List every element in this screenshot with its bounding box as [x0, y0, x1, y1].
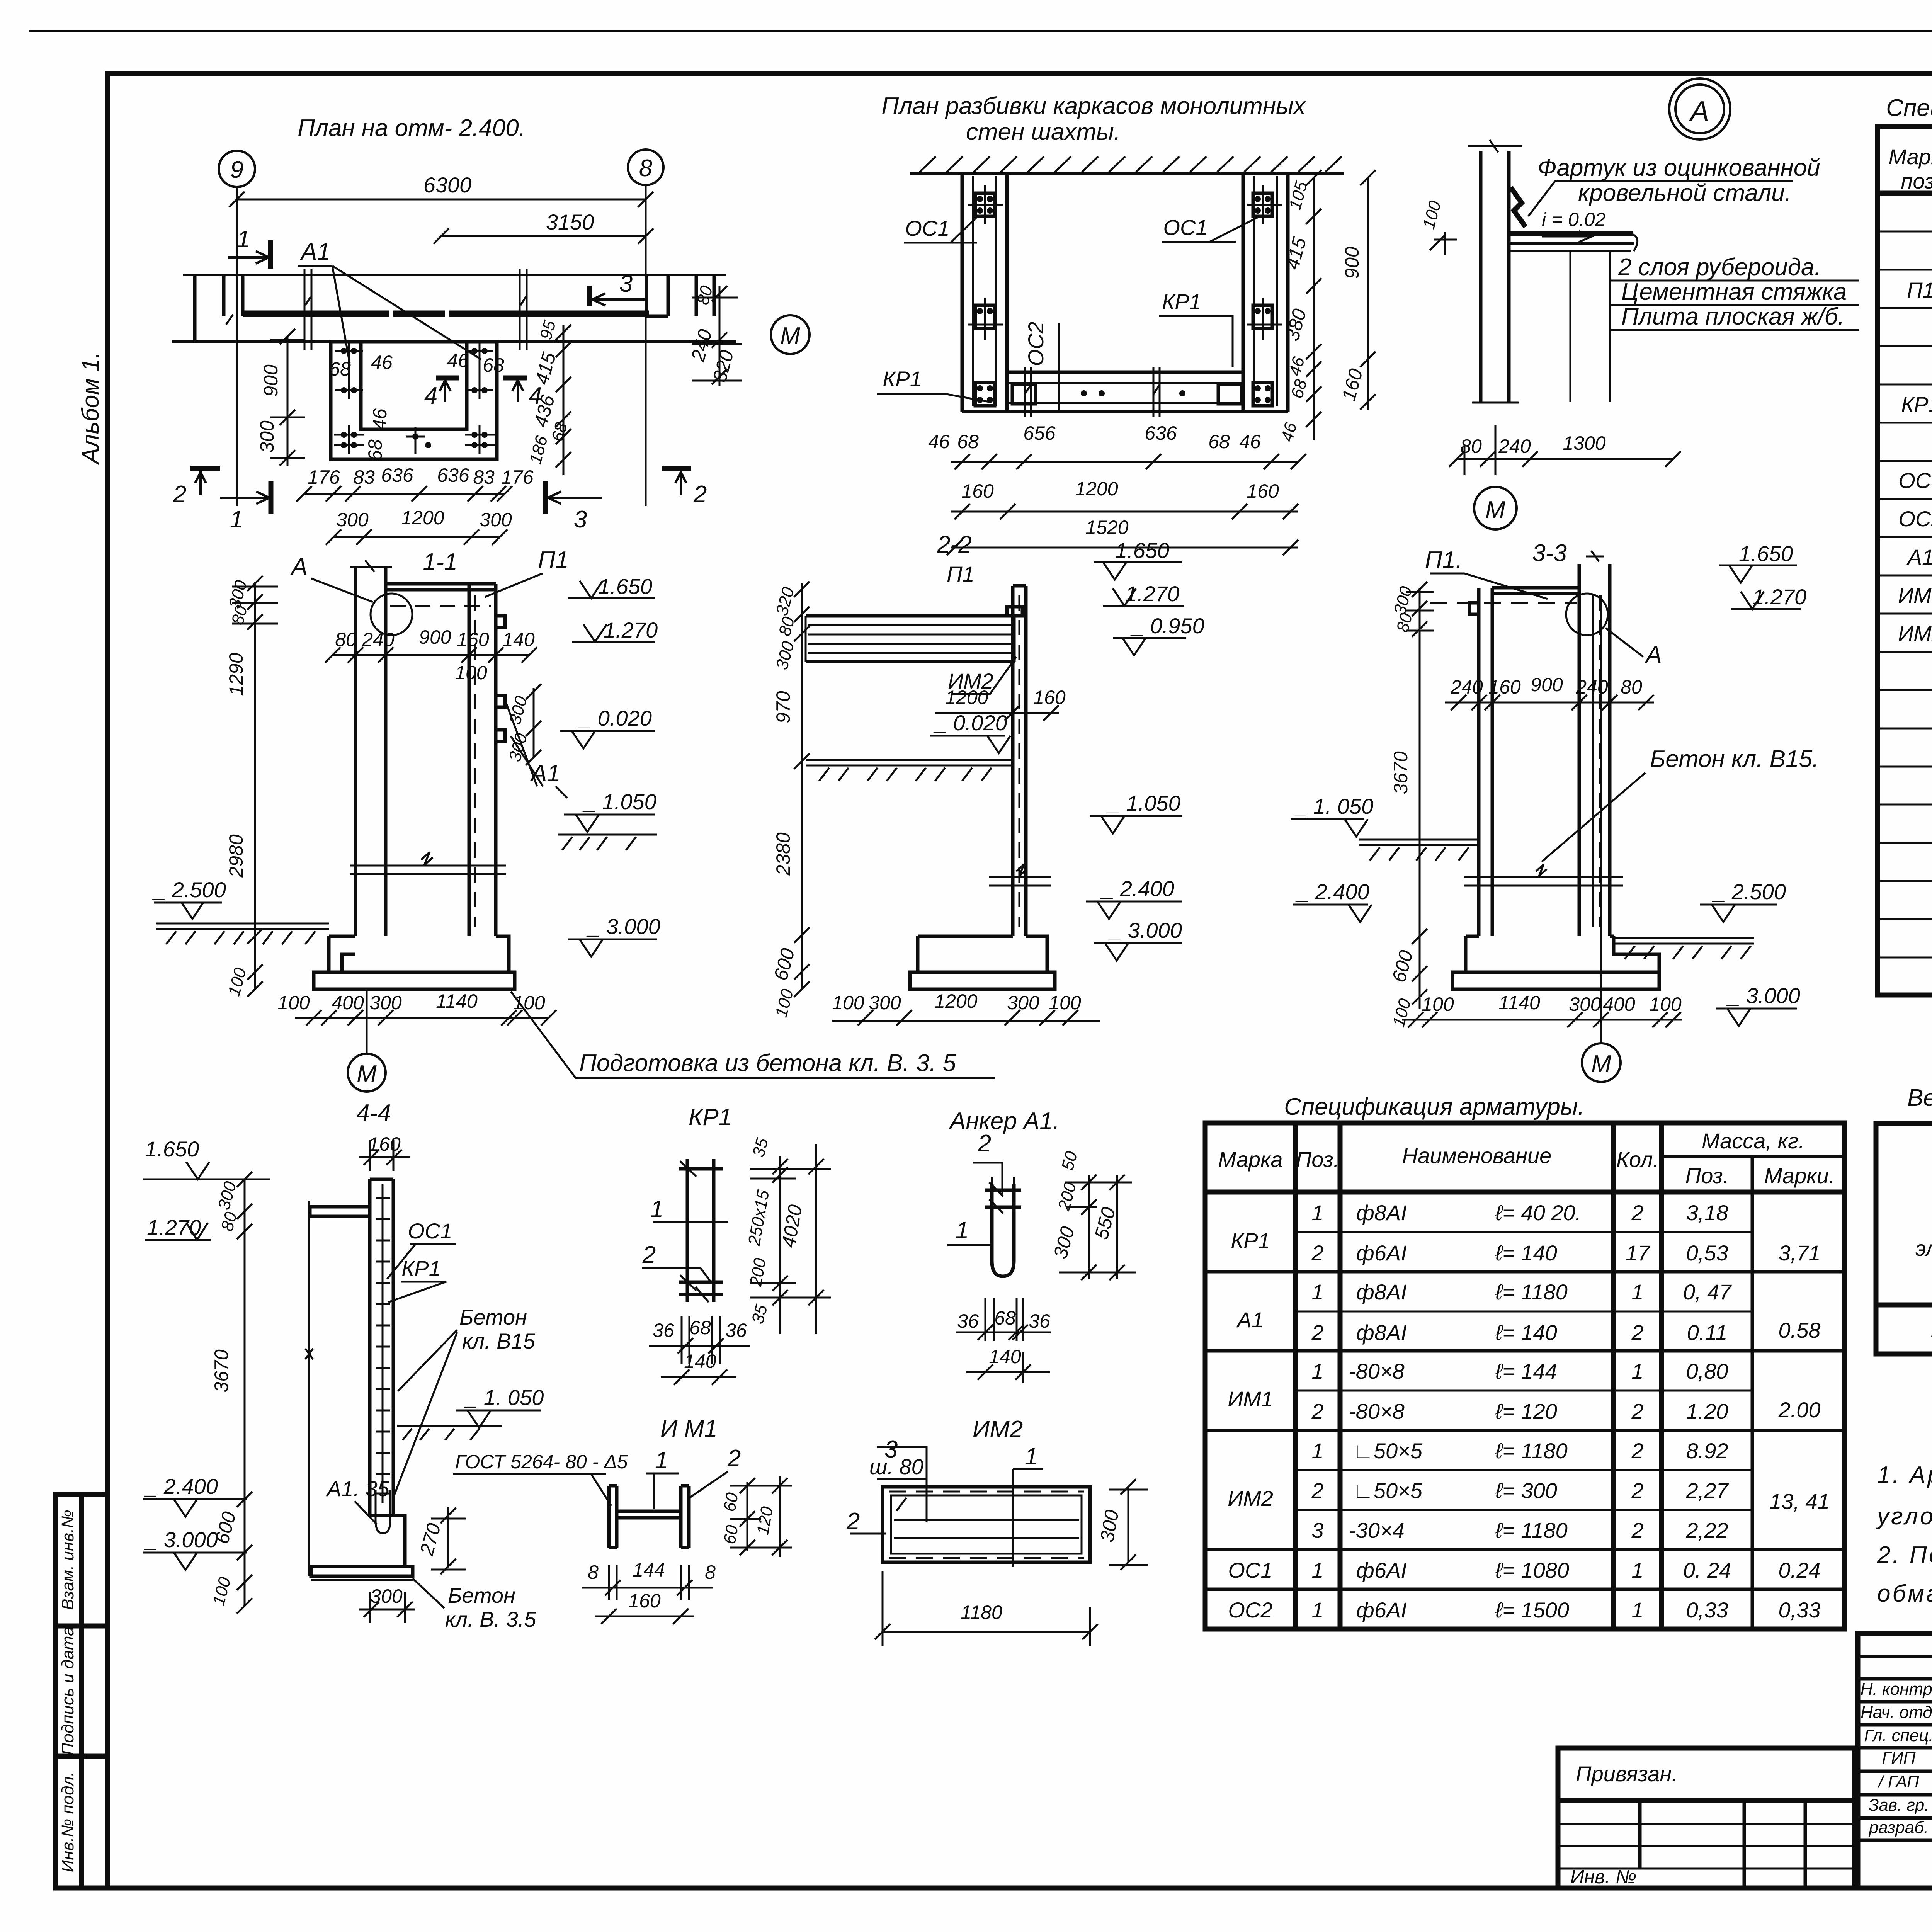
level -2.500 left: [154, 903, 222, 919]
bottom dim row 176/83/636/636/83/176: [304, 493, 505, 495]
svg-text:2 слоя рубероида.: 2 слоя рубероида.: [1618, 254, 1821, 281]
svg-text:кл. В. 3.5: кл. В. 3.5: [445, 1607, 536, 1631]
svg-text:поз.: поз.: [1901, 169, 1932, 193]
level -1.050 left 3-3: [1291, 819, 1368, 837]
ground line right: [558, 835, 657, 850]
svg-text:ℓ= 120: ℓ= 120: [1495, 1399, 1557, 1423]
svg-text:1.20: 1.20: [1686, 1399, 1728, 1423]
svg-text:186: 186: [526, 434, 551, 466]
svg-text:68: 68: [1287, 377, 1311, 400]
svg-text:КР1: КР1: [689, 1104, 732, 1131]
svg-text:1520: 1520: [1085, 517, 1128, 538]
svg-text:160: 160: [368, 1133, 401, 1155]
vedomost frame: [1876, 1123, 1932, 1354]
svg-text:900: 900: [1341, 247, 1363, 279]
svg-text:1: 1: [1631, 1359, 1643, 1383]
svg-text:636: 636: [437, 464, 469, 486]
svg-text:1140: 1140: [436, 990, 478, 1012]
wall band top line: [183, 274, 726, 276]
left dim chain 4-4: [244, 1179, 246, 1606]
row lines full: [1205, 1272, 1845, 1589]
svg-text:_ 3.000: _ 3.000: [144, 1527, 218, 1552]
dims 240 160 900 240 80: [1445, 702, 1654, 704]
svg-text:6300: 6300: [423, 173, 472, 197]
svg-text:Н. контр.: Н. контр.: [1861, 1680, 1932, 1699]
footing 3-3: [1452, 936, 1659, 989]
svg-text:Марка: Марка: [1888, 145, 1932, 169]
svg-text:_ 0.020: _ 0.020: [933, 711, 1007, 735]
svg-text:1: 1: [1311, 1558, 1323, 1582]
svg-text:1: 1: [1311, 1359, 1323, 1383]
verticals: [1296, 1123, 1662, 1629]
svg-text:2: 2: [1311, 1320, 1323, 1345]
svg-text:3: 3: [619, 270, 633, 297]
svg-text:М: М: [1591, 1051, 1611, 1077]
svg-text:900: 900: [419, 626, 451, 648]
extension line: [308, 1201, 310, 1576]
svg-text:36: 36: [725, 1320, 747, 1341]
svg-text:_ 1.050: _ 1.050: [582, 789, 656, 814]
svg-text:Бетон: Бетон: [459, 1305, 527, 1329]
svg-text:415: 415: [531, 350, 560, 387]
svg-text:970: 970: [772, 691, 794, 723]
svg-text:100: 100: [1422, 993, 1454, 1015]
svg-text:68: 68: [364, 439, 386, 461]
svg-text:36: 36: [1029, 1310, 1050, 1332]
svg-text:160: 160: [1338, 366, 1367, 403]
svg-text:ИМ2: ИМ2: [1228, 1486, 1273, 1510]
level 1.650: [568, 581, 655, 598]
privyazan sub table: [1558, 1800, 1854, 1888]
svg-text:Спецификация элементов воз: Спецификация элементов воздухозаборной ш…: [1886, 95, 1932, 121]
svg-text:1.650: 1.650: [145, 1137, 199, 1161]
M circle below detail: [1474, 487, 1517, 529]
level -2.400 left 3-3: [1293, 905, 1372, 922]
svg-text:Альбом 1.: Альбом 1.: [77, 352, 104, 465]
right dim chain 95/415/436/68/186: [563, 325, 565, 475]
bottom dims KP1: [682, 1316, 720, 1364]
dim 3150: [441, 235, 646, 237]
svg-text:Зав. гр.: Зав. гр.: [1868, 1796, 1929, 1815]
ceiling hatched line: [910, 172, 1344, 175]
bottom dims A1: [985, 1298, 1023, 1341]
svg-text:1: 1: [1631, 1598, 1643, 1622]
svg-text:46: 46: [928, 431, 950, 452]
svg-text:Подпись и дата: Подпись и дата: [58, 1627, 77, 1755]
svg-text:А: А: [1644, 641, 1662, 668]
svg-text:2.00: 2.00: [1778, 1398, 1821, 1422]
svg-text:ℓ= 140: ℓ= 140: [1495, 1241, 1557, 1265]
dim 6300: [237, 199, 646, 201]
svg-text:0,33: 0,33: [1779, 1598, 1821, 1622]
svg-text:Спецификация арматуры.: Спецификация арматуры.: [1284, 1094, 1584, 1120]
cross ties: [985, 1190, 1021, 1207]
svg-text:ℓ= 1500: ℓ= 1500: [1495, 1598, 1569, 1622]
svg-text:кровельной стали.: кровельной стали.: [1578, 180, 1791, 206]
svg-text:8: 8: [705, 1561, 716, 1583]
section mark 1 bottom: [269, 481, 274, 514]
left dim chain 2-2: [801, 583, 803, 989]
bottom dims IM1: [609, 1565, 689, 1600]
axis line to M: [366, 989, 368, 1054]
svg-text:Инв.№ подл.: Инв.№ подл.: [58, 1772, 77, 1872]
level -1.050 right: [1090, 816, 1182, 833]
svg-text:636: 636: [381, 464, 413, 486]
far right pier: [696, 275, 714, 316]
svg-text:900: 900: [260, 364, 282, 397]
I-beam: [609, 1486, 689, 1548]
svg-text:240: 240: [362, 629, 395, 650]
svg-text:1: 1: [1631, 1280, 1643, 1304]
svg-text:ОС1: ОС1: [905, 216, 949, 240]
svg-text:ф8АI: ф8АI: [1356, 1201, 1407, 1225]
far right dims 80/240/320: [719, 286, 721, 386]
svg-text:0,80: 0,80: [1686, 1359, 1728, 1383]
left dims 600 100: [1412, 966, 1427, 1005]
svg-text:0,53: 0,53: [1686, 1241, 1728, 1265]
svg-text:Привязан.: Привязан.: [1576, 1762, 1678, 1786]
svg-text:600: 600: [1388, 948, 1417, 985]
svg-text:ВЗ Ш-1: ВЗ Ш-1: [1930, 1317, 1932, 1342]
bottom dim 100 400 300 1140 100: [295, 1017, 549, 1019]
leader verticals below slab: [1570, 251, 1610, 402]
right dim chain KP1: [779, 1156, 781, 1334]
svg-text:3-3: 3-3: [1532, 540, 1567, 566]
svg-text:Кол.: Кол.: [1616, 1147, 1659, 1172]
svg-text:320: 320: [772, 585, 798, 617]
svg-text:-30×4: -30×4: [1349, 1518, 1405, 1543]
level 1.650 right: [1094, 562, 1182, 580]
svg-text:Марка: Марка: [1218, 1147, 1282, 1172]
svg-text:ОС1: ОС1: [1898, 468, 1932, 493]
svg-text:1.270: 1.270: [147, 1215, 201, 1240]
svg-text:ИМ1: ИМ1: [1228, 1387, 1273, 1411]
cage squares left wall: [975, 193, 1272, 406]
svg-text:кл. В15: кл. В15: [462, 1329, 536, 1353]
svg-text:1: 1: [1311, 1598, 1323, 1622]
svg-text:1.270: 1.270: [1752, 585, 1806, 609]
svg-text:Гл. спец.: Гл. спец.: [1864, 1726, 1932, 1745]
ground left 3-3: [1359, 840, 1479, 861]
level -0.950 right: [1113, 638, 1186, 655]
detail circle mark A 3-3: [1566, 594, 1608, 635]
svg-text:_ 1. 050: _ 1. 050: [1293, 794, 1373, 818]
wall break 2-2: [989, 864, 1051, 886]
svg-text:9: 9: [230, 156, 243, 183]
detail circle mark A: [371, 594, 412, 635]
anchor tooth left: [1469, 603, 1479, 614]
svg-text:_ 2.500: _ 2.500: [152, 878, 226, 902]
svg-text:ℓ= 1180: ℓ= 1180: [1495, 1439, 1568, 1463]
svg-text:Поз.: Поз.: [1685, 1163, 1729, 1188]
svg-text:ф8АI: ф8АI: [1356, 1320, 1407, 1345]
svg-text:144: 144: [633, 1559, 665, 1581]
svg-text:300: 300: [369, 992, 402, 1014]
footing 2-2: [910, 936, 1055, 989]
top slab 3-3: [1492, 588, 1579, 594]
svg-text:160: 160: [457, 629, 489, 650]
wall 4-4: [370, 1179, 393, 1515]
bottom dims row3 1520: [951, 547, 1298, 549]
svg-text:415: 415: [1281, 235, 1311, 272]
svg-text:3150: 3150: [546, 210, 594, 234]
svg-text:А: А: [290, 553, 307, 580]
svg-text:1180: 1180: [961, 1602, 1002, 1623]
svg-text:900: 900: [1531, 674, 1563, 696]
right wall 1-1: [469, 584, 496, 936]
svg-text:3,71: 3,71: [1779, 1241, 1821, 1265]
svg-text:550: 550: [1090, 1205, 1120, 1242]
svg-text:2: 2: [846, 1508, 860, 1535]
armatura table frame: [1205, 1123, 1845, 1629]
row lines partial: [1296, 1232, 1752, 1510]
svg-text:1140: 1140: [1498, 992, 1540, 1014]
svg-text:1: 1: [1631, 1558, 1643, 1582]
svg-text:элемента: элемента: [1915, 1236, 1932, 1260]
svg-text:600: 600: [211, 1509, 240, 1546]
svg-text:68: 68: [1208, 431, 1230, 452]
svg-text:636: 636: [1145, 422, 1177, 444]
svg-text:140: 140: [684, 1350, 716, 1372]
svg-text:250x15: 250x15: [745, 1189, 773, 1247]
svg-text:140: 140: [989, 1346, 1021, 1367]
svg-text:ИМ2: ИМ2: [973, 1416, 1023, 1443]
svg-text:Подготовка из бетона кл.: Подготовка из бетона кл. В. 3. 5: [579, 1050, 956, 1077]
frame rect: [883, 1487, 1090, 1562]
svg-text:ℓ= 300: ℓ= 300: [1495, 1478, 1557, 1503]
axis circle 9: [219, 151, 255, 187]
svg-text:_ 2.400: _ 2.400: [1100, 876, 1174, 901]
svg-text:КР1: КР1: [1901, 392, 1932, 417]
axis to M 3-3: [1600, 595, 1602, 1043]
svg-text:ОС2: ОС2: [1228, 1598, 1272, 1622]
bottom wall: [962, 372, 1288, 412]
svg-text:_ 2.500: _ 2.500: [1712, 879, 1786, 904]
svg-text:320: 320: [709, 348, 738, 384]
svg-text:ℓ= 1180: ℓ= 1180: [1495, 1518, 1568, 1543]
svg-text:1: 1: [1311, 1201, 1323, 1225]
svg-text:_ 1. 050: _ 1. 050: [464, 1385, 544, 1410]
svg-text:ф8АI: ф8АI: [1356, 1280, 1407, 1304]
level -3.000: [143, 1553, 247, 1570]
svg-text:1: 1: [230, 506, 243, 533]
svg-text:46: 46: [1239, 431, 1261, 452]
svg-text:300: 300: [869, 992, 901, 1014]
svg-text:160: 160: [1488, 676, 1521, 698]
svg-text:Поз.: Поз.: [1296, 1147, 1340, 1172]
svg-text:КР1: КР1: [1231, 1228, 1270, 1253]
svg-text:1200: 1200: [945, 687, 988, 708]
level -2.400 right: [1086, 901, 1182, 919]
svg-text:ИМ1: ИМ1: [1898, 583, 1932, 607]
svg-text:_ 1.050: _ 1.050: [1106, 791, 1180, 815]
svg-text:36: 36: [957, 1310, 979, 1332]
svg-text:160: 160: [628, 1590, 661, 1612]
sheet outer border top: [29, 30, 1932, 32]
svg-text:1.650: 1.650: [598, 574, 652, 599]
svg-text:300: 300: [1049, 1224, 1079, 1261]
svg-text:Фартук из оцинкованной: Фартук из оцинкованной: [1537, 155, 1820, 181]
axis line 9: [236, 187, 238, 506]
top dims 80 240 900 160 140: [333, 654, 529, 656]
svg-text:100: 100: [832, 992, 864, 1014]
svg-text:2: 2: [642, 1242, 656, 1268]
svg-text:1: 1: [650, 1196, 663, 1223]
svg-text:М: М: [357, 1061, 377, 1087]
svg-text:Нач. отд.: Нач. отд.: [1861, 1703, 1932, 1722]
svg-text:8: 8: [639, 155, 653, 182]
svg-text:4-4: 4-4: [356, 1100, 391, 1126]
svg-text:КР1: КР1: [1162, 289, 1201, 314]
svg-text:95: 95: [536, 318, 560, 342]
right dims IM1: [747, 1482, 748, 1551]
svg-text:46: 46: [447, 350, 469, 371]
svg-text:КР1: КР1: [883, 367, 922, 391]
svg-text:_ 2.400: _ 2.400: [1295, 879, 1369, 904]
svg-text:13, 41: 13, 41: [1769, 1489, 1830, 1514]
dim 100 left: [1430, 232, 1457, 255]
rebar tick lines: [334, 342, 495, 454]
wall band bottom thin line: [172, 340, 736, 343]
wall break mid: [350, 852, 506, 874]
rebar dots: [977, 196, 1271, 403]
bottom dims row1 46 68 656 636 68 46: [951, 461, 1298, 463]
svg-text:160: 160: [961, 480, 994, 502]
svg-text:2: 2: [1311, 1241, 1323, 1265]
svg-text:_ 0.950: _ 0.950: [1130, 614, 1204, 638]
svg-text:2: 2: [1631, 1478, 1643, 1503]
svg-text:8: 8: [588, 1561, 599, 1583]
svg-text:1.270: 1.270: [1125, 582, 1179, 606]
svg-text:300: 300: [214, 1179, 240, 1212]
svg-text:ℓ= 140: ℓ= 140: [1495, 1320, 1557, 1345]
svg-text:1300: 1300: [1563, 432, 1605, 454]
svg-text:ОС1: ОС1: [1228, 1558, 1272, 1582]
apron bend piece: [1511, 187, 1526, 227]
svg-text:3670: 3670: [1390, 751, 1412, 794]
level -0.020: [560, 731, 655, 748]
svg-text:_ 3.000: _ 3.000: [1726, 983, 1800, 1008]
svg-text:И М1: И М1: [660, 1415, 718, 1442]
svg-text:ОС2: ОС2: [1898, 507, 1932, 531]
ground line 2-2: [806, 760, 1013, 781]
svg-text:60: 60: [720, 1524, 742, 1546]
spec table row lines: [1878, 231, 1932, 957]
svg-text:240: 240: [1498, 435, 1531, 457]
svg-text:А1: А1: [1906, 545, 1932, 569]
bottom dims row2 160 1200 160: [951, 511, 1298, 513]
svg-text:1: 1: [237, 226, 250, 253]
svg-text:80: 80: [1621, 676, 1642, 698]
svg-text:46: 46: [369, 408, 391, 430]
M circle below 1-1: [348, 1054, 386, 1092]
svg-text:300: 300: [256, 420, 278, 453]
svg-text:2. Поверхности стен, соприка: 2. Поверхности стен, соприкасающиеся с г…: [1877, 1542, 1932, 1568]
svg-text:300: 300: [1007, 992, 1039, 1014]
svg-text:36: 36: [653, 1320, 674, 1341]
cage cross ticks: [968, 185, 1282, 340]
svg-text:8.92: 8.92: [1686, 1439, 1728, 1463]
level -3.000 right: [1094, 943, 1182, 961]
header lines: [1662, 1155, 1845, 1158]
level -1.050: [564, 815, 655, 832]
svg-text:1: 1: [1025, 1443, 1038, 1470]
rebar dots left wall: [341, 348, 488, 448]
svg-text:А1. 35: А1. 35: [326, 1476, 390, 1501]
svg-text:1200: 1200: [1075, 478, 1118, 500]
svg-text:0. 24: 0. 24: [1683, 1558, 1731, 1582]
svg-text:83: 83: [353, 466, 375, 488]
svg-text:2: 2: [1631, 1399, 1643, 1423]
svg-text:35: 35: [749, 1136, 772, 1159]
svg-text:240: 240: [1450, 676, 1483, 698]
svg-text:План разбивки каркасов мо: План разбивки каркасов монолитных: [881, 93, 1306, 119]
svg-text:240: 240: [687, 327, 716, 364]
svg-text:0.11: 0.11: [1687, 1320, 1728, 1345]
svg-text:1290: 1290: [225, 653, 247, 696]
svg-text:ОС2: ОС2: [1024, 321, 1048, 366]
svg-text:План на отм- 2.400.: План на отм- 2.400.: [298, 115, 526, 141]
svg-text:100: 100: [455, 662, 487, 684]
svg-text:ОС1: ОС1: [1163, 215, 1207, 240]
M circle left of mid plan: [771, 315, 810, 354]
right dim 300: [1128, 1487, 1129, 1562]
svg-text:380: 380: [1281, 306, 1311, 343]
svg-text:300: 300: [1569, 993, 1601, 1015]
svg-text:Марки.: Марки.: [1764, 1163, 1835, 1188]
section mark 1 (top): [268, 240, 273, 269]
top plate left: [310, 1207, 370, 1216]
svg-text:2: 2: [173, 481, 186, 508]
svg-text:2-2: 2-2: [937, 531, 972, 558]
svg-text:Инв. №: Инв. №: [1570, 1866, 1636, 1888]
left pier: [224, 275, 243, 316]
svg-text:3: 3: [574, 506, 587, 533]
svg-text:1200: 1200: [934, 990, 977, 1012]
left wall (formwork+rebar): [962, 173, 1007, 412]
svg-text:-80×8: -80×8: [1349, 1399, 1405, 1423]
right dim chain 1: [1313, 178, 1315, 440]
wall verticals: [1481, 151, 1509, 403]
svg-text:П1: П1: [538, 547, 568, 573]
svg-text:100: 100: [209, 1575, 235, 1607]
ground 4-4: [397, 1426, 502, 1440]
svg-text:3670: 3670: [211, 1349, 232, 1392]
level -2.400: [143, 1499, 247, 1517]
svg-text:1. Арматура класса АI по Г: 1. Арматура класса АI по ГОСТ5781-82*, с…: [1877, 1462, 1932, 1488]
svg-text:120: 120: [753, 1505, 777, 1536]
dim 300 bottom: [359, 1609, 415, 1611]
svg-text:68: 68: [957, 431, 979, 452]
svg-text:80: 80: [218, 1210, 241, 1233]
svg-text:1-1: 1-1: [423, 549, 457, 575]
svg-text:_ 2.400: _ 2.400: [144, 1474, 218, 1498]
svg-text:100: 100: [1419, 199, 1445, 231]
svg-text:КР1: КР1: [401, 1256, 441, 1281]
bottom dim row 300/1200/300: [333, 536, 500, 538]
svg-text:1.270: 1.270: [604, 618, 658, 642]
svg-text:1.650: 1.650: [1739, 541, 1793, 566]
footing 1-1: [314, 936, 515, 989]
level -0.020 left: [930, 736, 1010, 753]
im2 seat: [1007, 607, 1022, 616]
svg-text:600: 600: [770, 946, 799, 983]
svg-text:2: 2: [1311, 1478, 1323, 1503]
left dim chain: [254, 582, 256, 989]
rebar ladder: [376, 1184, 390, 1503]
svg-text:4: 4: [424, 383, 437, 409]
svg-text:-80×8: -80×8: [1349, 1359, 1405, 1383]
